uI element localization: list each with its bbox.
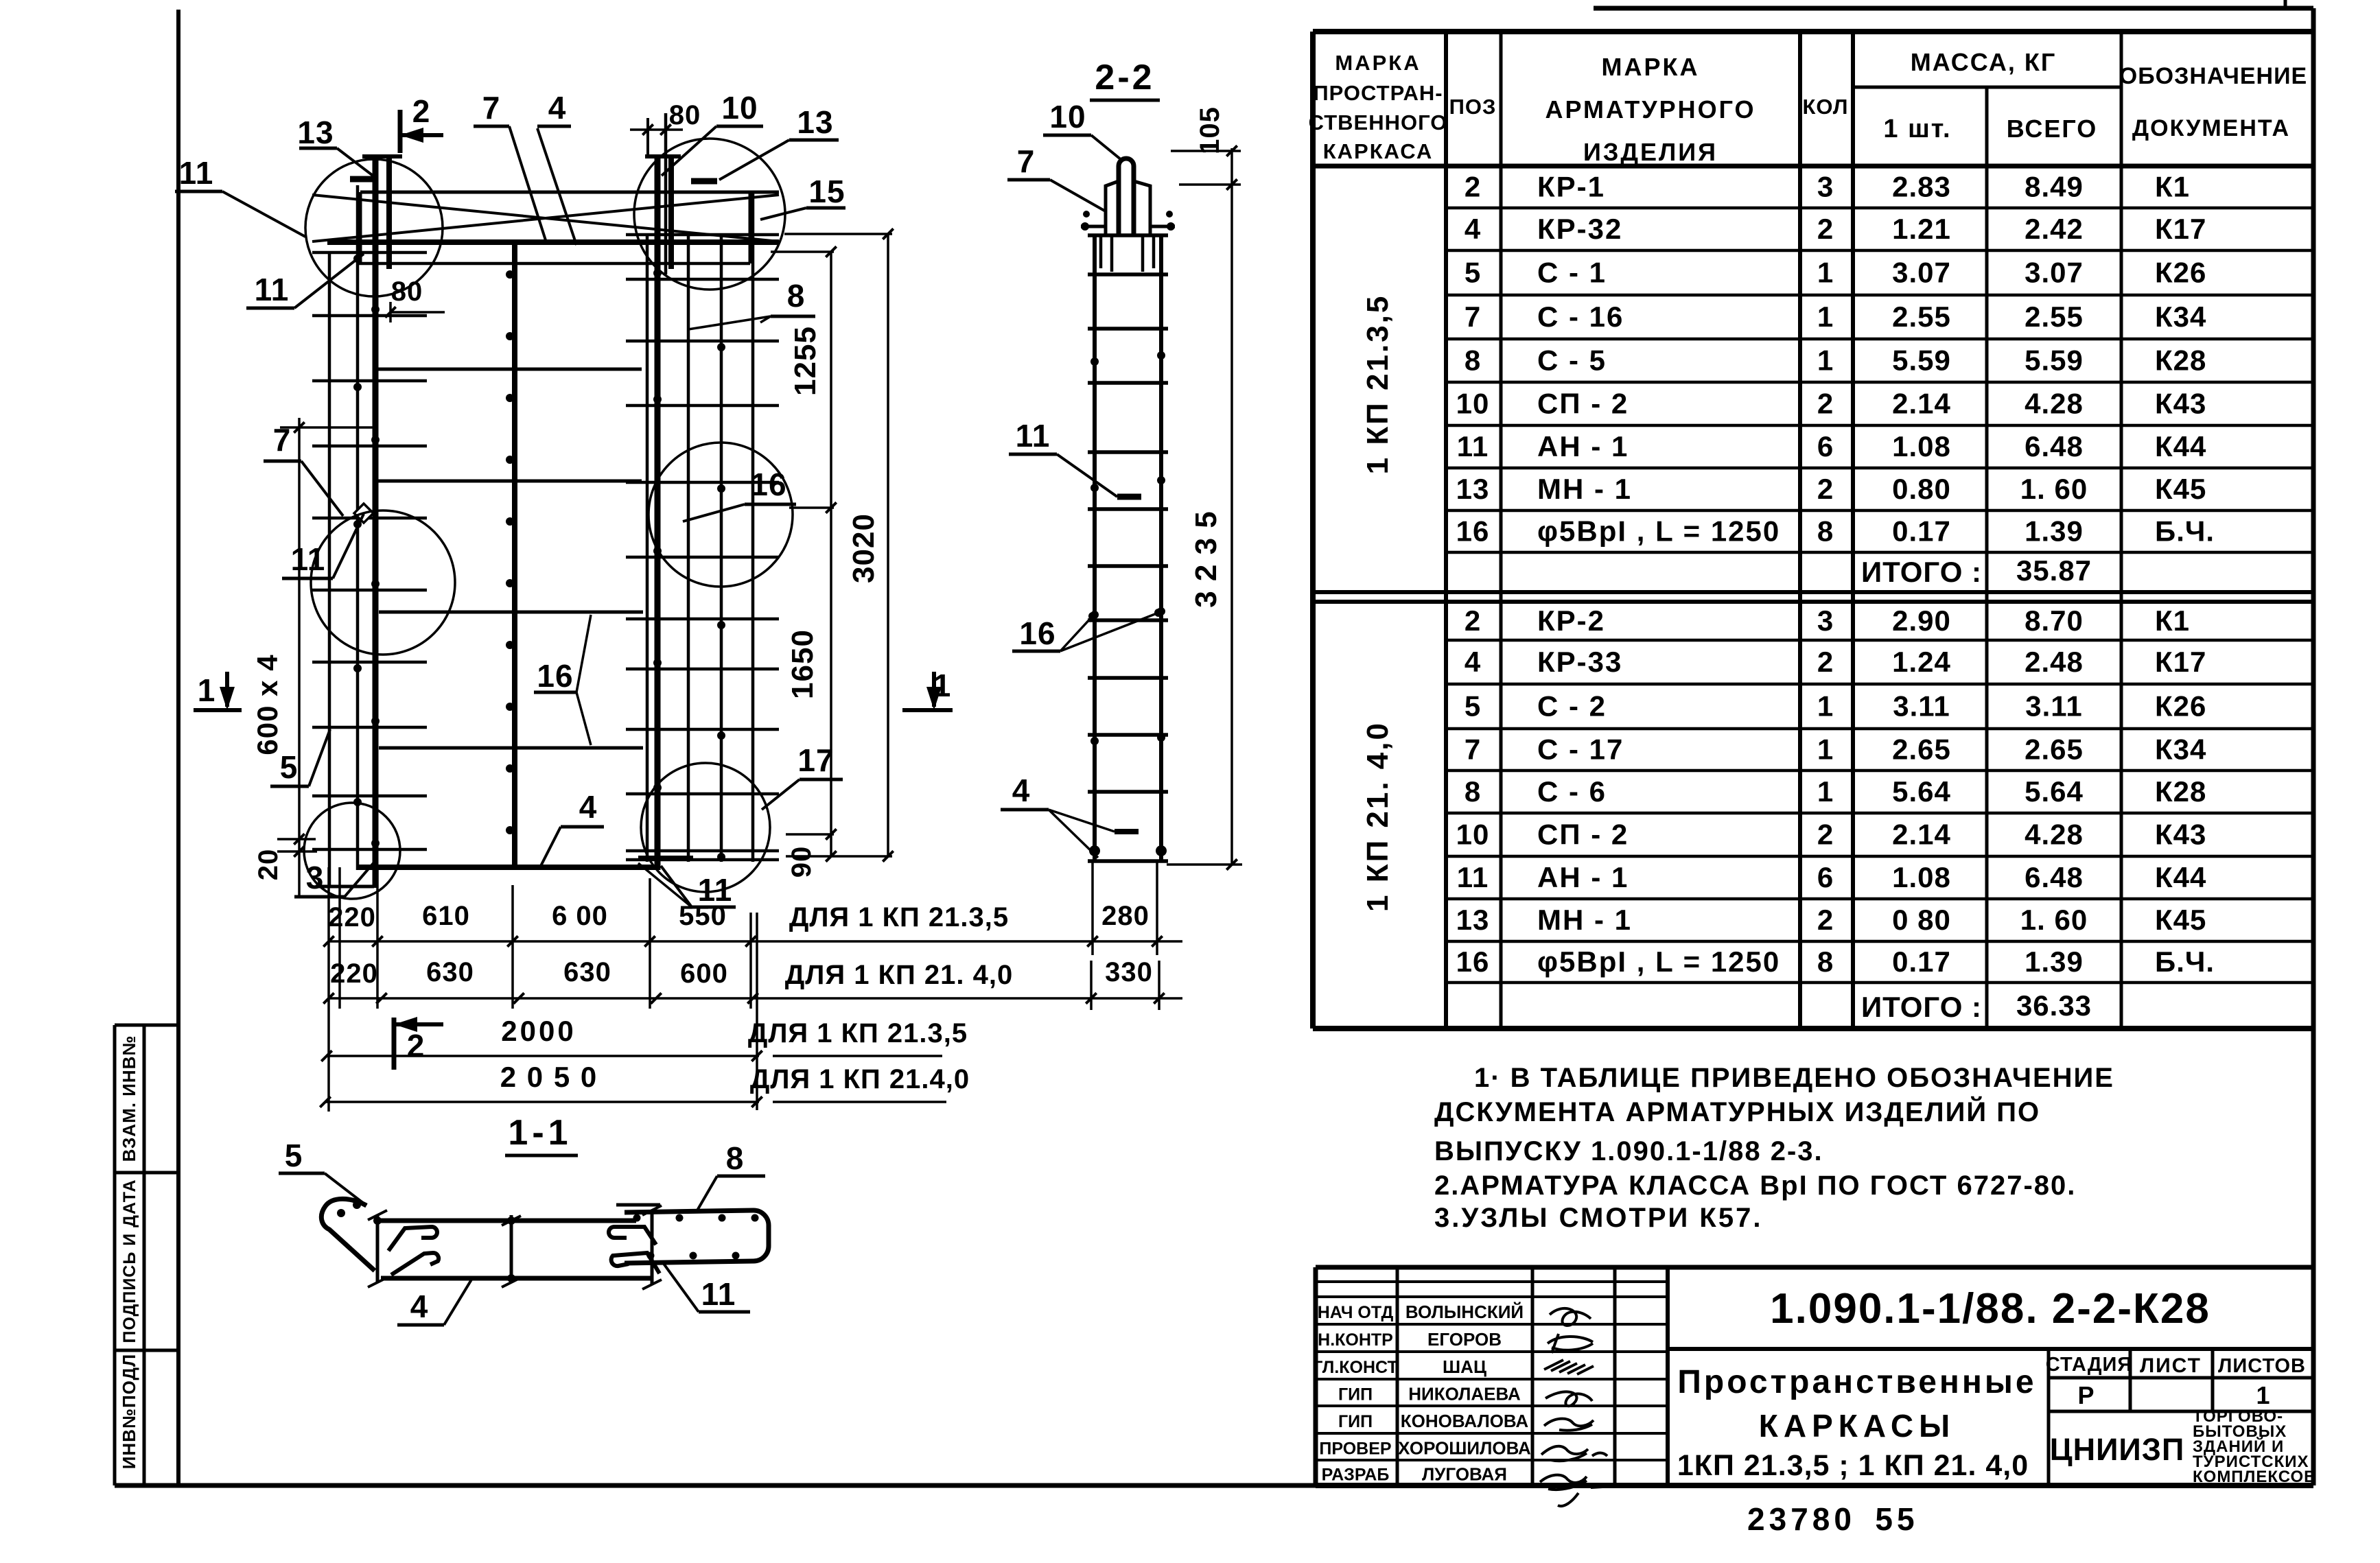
svg-text:2.14: 2.14: [1892, 819, 1951, 851]
dim chain 1255/1650/90: [771, 246, 837, 878]
svg-text:Н.КОНТР: Н.КОНТР: [1318, 1330, 1393, 1350]
svg-text:3.УЗЛЫ СМОТРИ К57.: 3.УЗЛЫ СМОТРИ К57.: [1434, 1203, 1762, 1233]
svg-text:Пространственные: Пространственные: [1677, 1364, 2036, 1400]
callout 16 middle: [534, 615, 591, 745]
note 2: [1434, 1171, 2076, 1201]
note 3: [1434, 1203, 1762, 1233]
svg-text:МН - 1: МН - 1: [1537, 904, 1632, 936]
table row 10 СП - 2: [1456, 388, 2207, 420]
title Пространственные каркасы: [1677, 1364, 2037, 1482]
svg-text:2.14: 2.14: [1892, 388, 1951, 420]
svg-text:2000: 2000: [501, 1015, 576, 1047]
table row 5 С - 2 (2): [1465, 690, 2207, 722]
svg-text:НИКОЛАЕВА: НИКОЛАЕВА: [1408, 1384, 1521, 1405]
section 2-2 callout 7: [1007, 143, 1106, 211]
svg-text:600 x 4: 600 x 4: [251, 654, 283, 755]
title row ГЛ.КОНСТ ШАЦ: [1313, 1356, 1486, 1377]
svg-text:2.48: 2.48: [2025, 646, 2084, 678]
svg-text:5.64: 5.64: [1892, 775, 1951, 808]
plan: detail circle mid-right: [649, 443, 793, 587]
callout 4 middle: [541, 789, 604, 866]
stage values Р 1: [2077, 1381, 2270, 1409]
section 2-2 dim 3235: [1167, 185, 1242, 870]
svg-text:16: 16: [1456, 945, 1490, 978]
title block signature grid: [1316, 1267, 1668, 1485]
svg-text:220: 220: [330, 959, 378, 989]
svg-text:10: 10: [1049, 99, 1086, 134]
svg-text:10: 10: [1456, 819, 1490, 851]
section 1-1 title: [505, 1113, 578, 1155]
svg-text:С - 6: С - 6: [1537, 775, 1607, 808]
svg-text:К44: К44: [2155, 861, 2206, 893]
svg-text:1.39: 1.39: [2025, 945, 2084, 978]
svg-text:16: 16: [537, 658, 573, 694]
svg-text:КР-2: КР-2: [1537, 604, 1605, 637]
table header ПОЗ: [1449, 95, 1497, 119]
svg-text:К43: К43: [2155, 819, 2206, 851]
section 1-1 callout 5: [279, 1138, 366, 1206]
svg-text:4: 4: [410, 1289, 429, 1324]
svg-text:φ5ВрI , L = 1250: φ5ВрI , L = 1250: [1537, 945, 1780, 978]
svg-text:ЕГОРОВ: ЕГОРОВ: [1427, 1329, 1502, 1350]
plan: middle bar: [506, 242, 515, 867]
svg-text:1.08: 1.08: [1892, 430, 1951, 462]
svg-text:8: 8: [1817, 945, 1834, 978]
svg-text:АН - 1: АН - 1: [1537, 861, 1629, 893]
section 2-2 bottom corner dots: [1083, 211, 1173, 856]
svg-text:3020: 3020: [847, 513, 880, 583]
table header 1 шт.: [1883, 115, 1951, 143]
svg-text:1: 1: [1817, 344, 1834, 377]
left stamp strip boxes: [115, 1025, 178, 1485]
dim extension verticals bottom: [329, 861, 1159, 1112]
svg-text:15: 15: [808, 174, 845, 209]
table row 13 МН - 1: [1456, 473, 2207, 505]
svg-text:1: 1: [198, 672, 216, 708]
svg-text:ШАЦ: ШАЦ: [1443, 1356, 1486, 1377]
table row 8 С - 5: [1465, 344, 2207, 377]
svg-text:СП - 2: СП - 2: [1537, 819, 1629, 851]
section mark 2 bottom: [394, 1017, 443, 1070]
rotated mark 1 КП 21.3,5: [1361, 294, 1395, 475]
svg-text:2-2: 2-2: [1095, 58, 1154, 97]
svg-text:11: 11: [1457, 430, 1489, 462]
table outer border: [1313, 32, 2313, 1029]
svg-text:ЛИСТ: ЛИСТ: [2140, 1354, 2202, 1377]
svg-text:11: 11: [255, 272, 290, 307]
svg-text:5: 5: [1465, 257, 1481, 289]
svg-text:3.07: 3.07: [1892, 257, 1951, 289]
svg-text:16: 16: [750, 467, 786, 502]
svg-text:К26: К26: [2155, 257, 2206, 289]
doc number cell line: [1668, 1347, 2313, 1351]
svg-text:1.08: 1.08: [1892, 861, 1951, 893]
svg-text:2.42: 2.42: [2025, 213, 2084, 245]
section mark 1 right: [902, 668, 953, 710]
dim 600x4 left: [251, 418, 373, 845]
callout 7 top: [474, 90, 546, 240]
svg-text:ДСКУМЕНТА АРМАТУРНЫХ ИЗДЕ: ДСКУМЕНТА АРМАТУРНЫХ ИЗДЕЛИЙ ПО: [1434, 1096, 2040, 1127]
dim row 220 610 600 550: [323, 901, 1182, 947]
callout 11 mid-left: [282, 514, 364, 578]
plan: detail circle bottom-right: [641, 763, 770, 892]
svg-text:КОНОВАЛОВА: КОНОВАЛОВА: [1401, 1411, 1529, 1431]
svg-text:3 2 3 5: 3 2 3 5: [1189, 510, 1223, 608]
sheet frame bottom border: [115, 1483, 2313, 1488]
section 1-1 bottom bar: [381, 1276, 652, 1281]
title block outer: [1316, 1267, 2313, 1485]
svg-text:ВСЕГО: ВСЕГО: [2007, 115, 2098, 143]
svg-text:ОБОЗНАЧЕНИЕ: ОБОЗНАЧЕНИЕ: [2119, 63, 2307, 89]
svg-text:4: 4: [548, 90, 567, 126]
table column lines: [1446, 32, 2121, 1029]
stamp label ИНВ№ПОДЛ: [119, 1354, 139, 1470]
table row 7 С - 17 (2): [1465, 733, 2207, 766]
plan: left chord verticals: [329, 156, 402, 888]
svg-text:1: 1: [1817, 733, 1834, 766]
note 1 line 3: [1434, 1136, 1823, 1166]
callout 11 left-2: [246, 254, 364, 308]
svg-text:1КП 21.3,5 ; 1 КП 21. 4,0: 1КП 21.3,5 ; 1 КП 21. 4,0: [1677, 1449, 2029, 1482]
table row 4 КР-32: [1465, 213, 2207, 245]
svg-text:К45: К45: [2155, 904, 2206, 936]
table row lines section 2: [1446, 640, 2313, 983]
svg-text:ПРОВЕР: ПРОВЕР: [1319, 1439, 1391, 1459]
org small text: [2193, 1407, 2316, 1486]
svg-text:КАРКАСА: КАРКАСА: [1323, 139, 1434, 163]
svg-text:Б.Ч.: Б.Ч.: [2155, 515, 2215, 548]
svg-text:2: 2: [1465, 604, 1481, 637]
svg-text:6 00: 6 00: [552, 901, 608, 931]
svg-text:МАССА, КГ: МАССА, КГ: [1911, 48, 2057, 76]
svg-text:550: 550: [679, 901, 727, 931]
table row 2 КР-1: [1465, 171, 2190, 203]
sheet frame top border (partial): [1594, 0, 2313, 10]
svg-text:К28: К28: [2155, 344, 2206, 377]
callout 13 top-right: [691, 104, 839, 181]
svg-text:К44: К44: [2155, 430, 2206, 462]
svg-text:20: 20: [253, 849, 283, 881]
svg-text:К28: К28: [2155, 775, 2206, 808]
svg-text:С - 16: С - 16: [1537, 301, 1624, 333]
svg-text:1.090.1-1/88. 2-2-К28: 1.090.1-1/88. 2-2-К28: [1770, 1285, 2210, 1332]
svg-text:2: 2: [1817, 819, 1834, 851]
svg-text:5.59: 5.59: [2025, 344, 2084, 377]
callout 5 mid-left: [270, 729, 330, 786]
svg-text:11: 11: [179, 155, 214, 191]
svg-text:К17: К17: [2155, 646, 2206, 678]
svg-text:1 КП 21.3,5: 1 КП 21.3,5: [1361, 294, 1395, 475]
svg-text:3.11: 3.11: [1893, 690, 1950, 722]
plan: detail circle top-left: [305, 159, 443, 296]
svg-text:2.83: 2.83: [1892, 171, 1951, 203]
svg-text:11: 11: [1016, 418, 1051, 454]
svg-text:11: 11: [291, 541, 326, 577]
callout 7 mid-left: [264, 422, 343, 516]
svg-text:КР-33: КР-33: [1537, 646, 1622, 678]
svg-text:2.АРМАТУРА КЛАССА ВрI ПО: 2.АРМАТУРА КЛАССА ВрI ПО ГОСТ 6727-80.: [1434, 1171, 2076, 1201]
section mark 2 top: [400, 93, 443, 153]
svg-text:ПОЗ: ПОЗ: [1449, 95, 1497, 119]
section 2-2 lifting loop: [1081, 158, 1175, 272]
plan: detail circle mid-left: [311, 510, 455, 655]
svg-text:К43: К43: [2155, 388, 2206, 420]
svg-text:2: 2: [1817, 388, 1834, 420]
svg-text:1650: 1650: [786, 629, 819, 699]
callout 17: [762, 742, 843, 810]
table row 2 КР-2 (2): [1465, 604, 2190, 637]
callout 8 right: [688, 278, 815, 329]
svg-text:3: 3: [1817, 604, 1834, 637]
svg-text:φ5ВрI , L = 1250: φ5ВрI , L = 1250: [1537, 515, 1780, 548]
svg-text:АРМАТУРНОГО: АРМАТУРНОГО: [1545, 95, 1755, 124]
svg-text:17: 17: [797, 742, 834, 778]
svg-text:7: 7: [482, 90, 501, 126]
svg-text:1. 60: 1. 60: [2020, 904, 2088, 936]
table header КОЛ: [1802, 95, 1848, 119]
svg-text:11: 11: [1457, 861, 1489, 893]
svg-text:630: 630: [563, 957, 611, 987]
table row 8 С - 6 (2): [1465, 775, 2207, 808]
svg-text:С - 1: С - 1: [1537, 257, 1607, 289]
svg-text:2: 2: [1817, 904, 1834, 936]
svg-text:1 КП 21. 4,0: 1 КП 21. 4,0: [1361, 721, 1395, 912]
section 1-1 cross bars: [368, 1206, 662, 1289]
svg-text:8: 8: [1817, 515, 1834, 548]
svg-text:8.49: 8.49: [2025, 171, 2084, 203]
svg-text:0.80: 0.80: [1892, 473, 1951, 505]
svg-text:ЦНИИЗП: ЦНИИЗП: [2050, 1432, 2185, 1467]
callout 13 top-left: [297, 115, 375, 179]
svg-text:КР-1: КР-1: [1537, 171, 1605, 203]
svg-text:6: 6: [1817, 861, 1834, 893]
svg-text:2: 2: [412, 93, 431, 129]
sheet frame right border: [2311, 8, 2316, 1485]
svg-text:2: 2: [1817, 646, 1834, 678]
plan: X cross brace: [312, 195, 779, 242]
section 1-1 left hook: [321, 1199, 375, 1271]
table row 10 СП - 2 (2): [1456, 819, 2207, 851]
dim row 2050: [320, 1061, 970, 1107]
svg-text:КОЛ: КОЛ: [1802, 95, 1848, 119]
svg-text:2: 2: [1465, 171, 1481, 203]
section 2-2 rungs: [1088, 235, 1168, 861]
svg-text:ДЛЯ 1 КП 21.3,5: ДЛЯ 1 КП 21.3,5: [748, 1018, 968, 1048]
dim 80 top: [630, 100, 701, 154]
section 2-2 ladder verticals: [1095, 235, 1161, 861]
svg-text:1.21: 1.21: [1892, 213, 1951, 245]
svg-text:ВЫПУСКУ 1.090.1-1/88 2-3.: ВЫПУСКУ 1.090.1-1/88 2-3.: [1434, 1136, 1823, 1166]
table header ВСЕГО: [2007, 115, 2098, 143]
plan: top chord beam outline: [327, 192, 779, 263]
svg-text:0 80: 0 80: [1892, 904, 1951, 936]
svg-text:ГИП: ГИП: [1338, 1412, 1373, 1431]
section 1-1 mesh piece: [616, 1205, 769, 1263]
signatures column squiggles: [1540, 1308, 1614, 1506]
plan: long sheet wires: [377, 369, 643, 748]
svg-text:ГИП: ГИП: [1338, 1385, 1373, 1405]
section 1-1 top bar: [377, 1219, 636, 1223]
svg-text:0.17: 0.17: [1892, 945, 1951, 978]
plan: right chord rungs: [626, 235, 779, 861]
table section divider: [1313, 592, 2313, 602]
svg-text:3.11: 3.11: [2025, 690, 2082, 722]
svg-text:105: 105: [1195, 106, 1225, 154]
svg-text:К17: К17: [2155, 213, 2206, 245]
svg-text:1: 1: [1817, 301, 1834, 333]
svg-text:1· В ТАБЛИЦЕ ПРИВЕДЕНО ОБО: 1· В ТАБЛИЦЕ ПРИВЕДЕНО ОБОЗНАЧЕНИЕ: [1474, 1063, 2114, 1093]
svg-text:10: 10: [1456, 388, 1490, 420]
svg-text:6.48: 6.48: [2025, 430, 2084, 462]
plan: right chord verticals: [645, 113, 753, 870]
svg-text:СТАДИЯ: СТАДИЯ: [2046, 1354, 2132, 1376]
svg-text:КОМПЛЕКСОВ: КОМПЛЕКСОВ: [2193, 1468, 2316, 1486]
svg-text:АН - 1: АН - 1: [1537, 430, 1629, 462]
section 1-1 anchor hook lower-left: [391, 1253, 439, 1275]
plan: detail circle top-right: [634, 139, 785, 290]
title row РАЗРАБ ЛУГОВАЯ: [1322, 1464, 1507, 1485]
sheet frame left border: [176, 10, 180, 1485]
svg-text:8: 8: [1465, 775, 1481, 808]
svg-text:ПРОСТРАН-: ПРОСТРАН-: [1313, 81, 1443, 105]
svg-text:К34: К34: [2155, 301, 2206, 333]
svg-text:2: 2: [1817, 213, 1834, 245]
table row 7 С - 16: [1465, 301, 2207, 333]
table row итого 35.87: [1861, 554, 2092, 588]
svg-text:600: 600: [680, 959, 728, 989]
callout 11 bottom-right: [638, 863, 736, 908]
callout 11 top-left: [175, 155, 305, 237]
svg-text:МАРКА: МАРКА: [1602, 53, 1700, 81]
svg-text:6: 6: [1817, 430, 1834, 462]
dim 20 bottom-left: [253, 839, 317, 895]
table row 11 АН - 1 (2): [1457, 861, 2207, 893]
table row 4 КР-33 (2): [1465, 646, 2207, 678]
svg-text:К1: К1: [2155, 604, 2190, 637]
svg-text:13: 13: [1456, 473, 1490, 505]
title row НАЧ ОТД ВОЛЫНСКИЙ: [1318, 1302, 1524, 1322]
table row lines section 1: [1446, 208, 2313, 552]
svg-text:ДЛЯ 1 КП 21.3,5: ДЛЯ 1 КП 21.3,5: [789, 902, 1009, 932]
svg-text:ИТОГО :: ИТОГО :: [1861, 556, 1982, 588]
svg-text:4.28: 4.28: [2025, 388, 2084, 420]
svg-text:2: 2: [1817, 473, 1834, 505]
svg-text:4: 4: [1012, 773, 1031, 808]
svg-text:С - 17: С - 17: [1537, 733, 1624, 766]
svg-text:СТВЕННОГО: СТВЕННОГО: [1309, 110, 1448, 134]
svg-text:МАРКА: МАРКА: [1335, 51, 1421, 75]
svg-text:К34: К34: [2155, 733, 2206, 766]
svg-text:СП - 2: СП - 2: [1537, 388, 1629, 420]
svg-text:36.33: 36.33: [2016, 989, 2092, 1022]
svg-text:8.70: 8.70: [2025, 604, 2084, 637]
svg-text:КР-32: КР-32: [1537, 213, 1622, 245]
svg-text:ЛУГОВАЯ: ЛУГОВАЯ: [1422, 1464, 1507, 1485]
svg-text:КАРКАСЫ: КАРКАСЫ: [1759, 1408, 1955, 1444]
svg-text:13: 13: [797, 104, 833, 140]
svg-text:1255: 1255: [789, 326, 822, 396]
title row Н.КОНТР ЕГОРОВ: [1318, 1329, 1502, 1350]
table header lines: [1313, 87, 2313, 166]
stage grid СТАДИЯ ЛИСТ ЛИСТОВ: [2049, 1349, 2313, 1485]
callout 15: [760, 174, 845, 220]
dim row 2000: [321, 1015, 968, 1061]
svg-text:1: 1: [1817, 690, 1834, 722]
svg-text:4.28: 4.28: [2025, 819, 2084, 851]
svg-text:1.24: 1.24: [1892, 646, 1951, 678]
callout 4 top: [537, 90, 576, 245]
svg-text:3: 3: [306, 860, 325, 895]
doc number 1.090.1-1/88.2-2-К28: [1770, 1285, 2210, 1332]
table row итого 36.33: [1861, 989, 2092, 1023]
svg-text:220: 220: [328, 902, 376, 932]
section 1-1 callout 4: [397, 1280, 471, 1325]
stamp label ВЗАМ. ИНВ№: [119, 1035, 139, 1162]
svg-text:ДЛЯ 1 КП 21.4,0: ДЛЯ 1 КП 21.4,0: [750, 1064, 970, 1094]
callout 3 bottom-left: [294, 860, 373, 897]
stage header text: [2046, 1354, 2306, 1377]
svg-text:330: 330: [1105, 957, 1153, 987]
title row ПРОВЕР ХОРОШИЛОВА: [1319, 1438, 1531, 1459]
table header ОБОЗНАЧЕНИЕ ДОКУМЕНТА: [2119, 63, 2307, 141]
svg-text:3: 3: [1817, 171, 1834, 203]
section 2-2 title: [1090, 58, 1160, 100]
svg-text:630: 630: [426, 957, 474, 987]
svg-text:С - 2: С - 2: [1537, 690, 1607, 722]
svg-text:55: 55: [1875, 1501, 1918, 1537]
section 1-1 anchor hook lower-right: [611, 1253, 660, 1273]
dim 80 left small: [385, 277, 445, 322]
org ЦНИИЭП: [2050, 1432, 2185, 1467]
svg-text:1 шт.: 1 шт.: [1883, 115, 1951, 143]
svg-text:13: 13: [297, 115, 334, 150]
svg-text:К1: К1: [2155, 171, 2190, 203]
svg-text:1. 60: 1. 60: [2020, 473, 2088, 505]
svg-text:2.65: 2.65: [1892, 733, 1951, 766]
svg-text:НАЧ ОТД: НАЧ ОТД: [1318, 1303, 1394, 1322]
svg-text:ПОДПИСЬ И ДАТА: ПОДПИСЬ И ДАТА: [120, 1179, 139, 1343]
svg-text:ХОРОШИЛОВА: ХОРОШИЛОВА: [1398, 1438, 1531, 1459]
svg-text:0.17: 0.17: [1892, 515, 1951, 548]
svg-text:2: 2: [407, 1028, 425, 1063]
svg-text:11: 11: [701, 1276, 736, 1312]
dim row 220 630 630 600: [323, 957, 1182, 1004]
svg-text:90: 90: [786, 846, 817, 878]
svg-text:1: 1: [1817, 257, 1834, 289]
svg-text:4: 4: [1465, 213, 1481, 245]
svg-text:4: 4: [1465, 646, 1481, 678]
svg-text:6.48: 6.48: [2025, 861, 2084, 893]
svg-text:2.90: 2.90: [1892, 604, 1951, 637]
section 2-2 callout 4: [1001, 773, 1139, 858]
table header МАССА, КГ: [1911, 48, 2057, 76]
table row 11 АН - 1: [1457, 430, 2207, 462]
svg-text:ДОКУМЕНТА: ДОКУМЕНТА: [2132, 115, 2290, 141]
section 1-1 anchor hook upper-right: [609, 1227, 656, 1245]
svg-text:1-1: 1-1: [508, 1113, 572, 1153]
svg-text:ИЗДЕЛИЯ: ИЗДЕЛИЯ: [1583, 138, 1718, 166]
svg-text:7: 7: [1017, 143, 1036, 179]
svg-text:МН - 1: МН - 1: [1537, 473, 1632, 505]
svg-text:ИНВ№ПОДЛ: ИНВ№ПОДЛ: [119, 1354, 139, 1470]
section 2-2 dim 105: [1171, 106, 1241, 190]
note 1 line 2: [1434, 1096, 2040, 1127]
svg-text:7: 7: [1465, 733, 1481, 766]
svg-text:5: 5: [285, 1138, 303, 1173]
table row 13 МН - 1 (2): [1456, 904, 2207, 936]
svg-text:8: 8: [726, 1140, 745, 1176]
svg-text:2.55: 2.55: [2025, 301, 2084, 333]
